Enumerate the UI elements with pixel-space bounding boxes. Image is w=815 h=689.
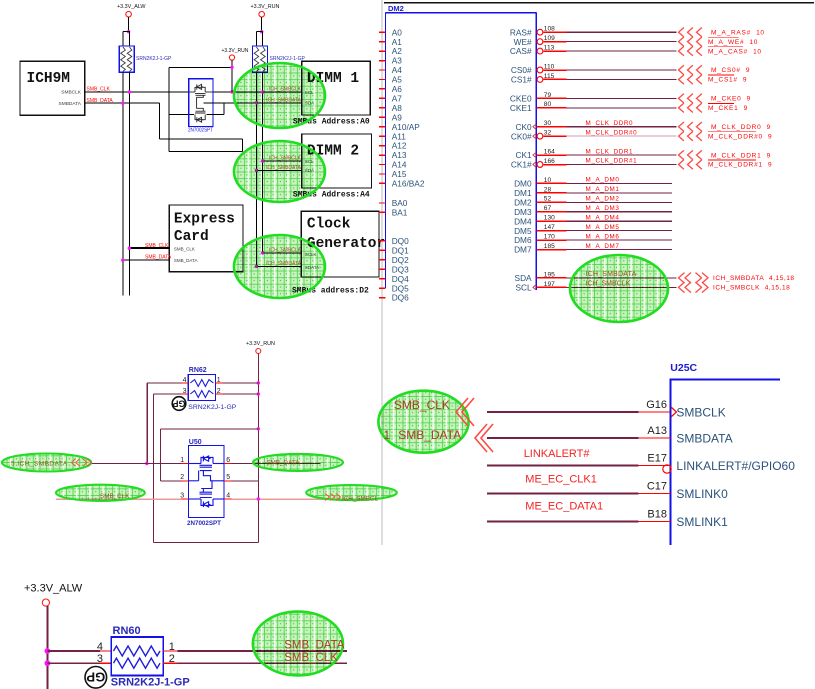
svg-text:DM7: DM7 [514, 245, 532, 255]
svg-text:108: 108 [544, 26, 555, 33]
svg-text:SRN2K2J-1-GP: SRN2K2J-1-GP [111, 677, 190, 689]
pin stub A12 (DM2) [379, 145, 386, 147]
svg-text:SRN2K2J-1-GP: SRN2K2J-1-GP [188, 404, 236, 411]
svg-text:U50: U50 [189, 439, 202, 446]
wire pin DM2 stub [536, 201, 566, 203]
off-page chevrons CK1# [679, 160, 684, 169]
junction SCL rail on SMBCLK [261, 90, 264, 93]
svg-text:28: 28 [544, 186, 552, 193]
junction SCL rail ClockGen [261, 251, 264, 254]
junction SDA rail DIMM2 [255, 169, 258, 172]
wire SCL Q1 to DIMM1 [213, 91, 302, 93]
svg-text:C17: C17 [647, 481, 667, 493]
pin stub A2 (DM2) [379, 50, 386, 52]
wire SDA net [567, 277, 677, 279]
svg-text:SMB_DATA: SMB_DATA [398, 428, 461, 442]
pin stub A14 (DM2) [379, 164, 386, 166]
off-page chevrons CS1# [679, 75, 684, 84]
svg-text:CS1#: CS1# [511, 75, 532, 85]
resistor pack RN62 [188, 375, 215, 401]
svg-text:M_A_DM2: M_A_DM2 [586, 196, 620, 203]
wire pin DM0 stub [536, 182, 566, 184]
pin stub U50 right y480.8 [224, 480, 231, 482]
svg-text:SMB_DATA: SMB_DATA [266, 460, 300, 467]
svg-text:SCL: SCL [515, 282, 532, 292]
wire pin CKE1 stub [536, 107, 566, 109]
off-page chevrons CK0# [679, 131, 684, 140]
svg-text:SRN2K2J-1-GP: SRN2K2J-1-GP [270, 56, 306, 62]
svg-text:SMB_DATA: SMB_DATA [284, 639, 345, 651]
wire loop right vertical [242, 139, 244, 152]
wire loop left vertical [168, 67, 170, 151]
IC DM2 block outline [386, 12, 537, 14]
svg-text:M_CLK_DDR0: M_CLK_DDR0 [586, 120, 634, 127]
pin stub A1 (DM2) [379, 41, 386, 43]
off-page chevrons CAS# [679, 46, 684, 55]
block DIMM 2 [302, 134, 372, 188]
svg-text:M_CLK_DDR#1 9: M_CLK_DDR#1 9 [708, 162, 772, 169]
wire RN pack left leg upper [122, 32, 124, 46]
wire pin DM7 stub [536, 249, 566, 251]
block Clock Generator [301, 211, 379, 277]
wire CS0# net [567, 69, 677, 71]
wire pin CS0# stub [543, 69, 566, 71]
wire pin CKE0 stub [536, 97, 566, 99]
pin stub E17 [638, 465, 670, 467]
highlight ellipse SMB_DATA (middle) [253, 454, 343, 471]
wire pin CK1# stub [543, 164, 566, 166]
wire drain up to SDA [223, 103, 225, 115]
svg-text:ICH_SMBDATA: ICH_SMBDATA [266, 165, 301, 171]
wire rail branch left [160, 428, 258, 430]
resistor pack RN60 [111, 637, 163, 676]
svg-text:SMBDATA: SMBDATA [676, 432, 732, 446]
junction SCL rail DIMM2 [261, 159, 264, 162]
transistor Q1 upper MOSFET symbol [189, 84, 213, 111]
svg-text:ICH_SMBDATA: ICH_SMBDATA [266, 261, 301, 267]
svg-text:CK1#: CK1# [511, 160, 532, 170]
block Express Card [169, 205, 243, 272]
pin stub A5 (DM2) [379, 78, 386, 80]
wire pin CK1 stub [536, 154, 566, 156]
wire RN62.2 to rail [223, 393, 259, 395]
svg-text:GP: GP [86, 670, 105, 685]
svg-text:4: 4 [226, 492, 230, 499]
pin stub C17 [638, 493, 670, 495]
svg-text:M_CS1# 9: M_CS1# 9 [708, 77, 747, 84]
svg-text:M_CLK_DDR1 9: M_CLK_DDR1 9 [711, 152, 771, 159]
wire CK1# net [567, 164, 677, 166]
pin stub A0 (DM2) [379, 31, 386, 33]
pin stub A9 (DM2) [379, 116, 386, 118]
wire +3.3V_ALW rail (bottom) [46, 606, 48, 689]
wire pin CAS# stub [543, 50, 566, 52]
junction SDA rail ClockGen [255, 265, 258, 268]
svg-text:A16/BA2: A16/BA2 [392, 179, 425, 189]
svg-text:2N7002SPT: 2N7002SPT [187, 520, 221, 527]
wire SDA to DIMM2 [256, 169, 301, 171]
wire to U50.2 stub [160, 480, 181, 482]
pin stub A3 (DM2) [379, 60, 386, 62]
wire SCL net [567, 286, 677, 288]
wire SDATA to ClockGen [256, 265, 301, 267]
svg-text:1: 1 [180, 457, 184, 464]
svg-text:LINKALERT#/GPIO60: LINKALERT#/GPIO60 [676, 459, 795, 473]
svg-text:+3.3V_ALW: +3.3V_ALW [117, 4, 146, 10]
wire bottom horizontal [153, 542, 258, 544]
junction on U50 pin1 wire [145, 462, 148, 465]
highlight ellipse DIMM2 SMB nets [234, 141, 325, 202]
highlight ellipse SMB_CLK/SMB_DATA (U25C) [378, 391, 468, 453]
highlight ellipse ICH_SMBDATA/ICH_SMBCLK (DM2) [570, 255, 668, 322]
svg-text:110: 110 [544, 63, 555, 70]
wire pin SCL stub [536, 286, 566, 288]
pin stub DQ6 (DM2) [379, 297, 386, 299]
svg-text:115: 115 [544, 73, 555, 80]
wire to RN60.4 [47, 650, 100, 652]
wire jog to pack legs [123, 31, 130, 33]
transistor block Q1 box [189, 79, 213, 127]
wire to SMLINK1 [487, 521, 638, 523]
svg-text:M_CKE1 9: M_CKE1 9 [708, 105, 748, 112]
wire pin CK0# stub [543, 135, 566, 137]
svg-text:1: 1 [384, 428, 391, 442]
svg-text:DM2: DM2 [388, 4, 404, 13]
svg-text:Card: Card [174, 229, 209, 245]
svg-text:M_A_DM0: M_A_DM0 [586, 177, 620, 184]
wire to LINKALERT#/GPIO60 [487, 465, 638, 467]
wire lower FET drain [206, 114, 223, 116]
svg-text:185: 185 [544, 243, 555, 250]
pin stub A11 (DM2) [379, 135, 386, 137]
wire 3.3V rail down to SMBCLK [231, 60, 233, 92]
wire left pack leg B down rail [128, 72, 130, 295]
wire RN62.4 left [147, 382, 182, 384]
wire down to U50.2 [159, 429, 161, 481]
wire to SMBDATA [487, 437, 638, 439]
svg-text:32: 32 [544, 130, 552, 137]
wire pin DM1 stub [536, 192, 566, 194]
svg-text:E17: E17 [647, 453, 667, 465]
svg-text:M_A_CAS# 10: M_A_CAS# 10 [708, 48, 762, 55]
svg-text:5: 5 [226, 474, 230, 481]
wire DM1 net [567, 192, 673, 194]
pin stub U50 left y480.8 [181, 480, 189, 482]
junction rail/loop top [230, 66, 233, 69]
off-page chevrons SCL [679, 282, 685, 293]
big chevrons SMB_CLK [456, 398, 468, 426]
wire SMB_DATA (bottom) [178, 650, 348, 652]
junction +3.3V_RUN split [260, 30, 263, 33]
wire DM3 net [567, 211, 673, 213]
pin stub RN62.3 [182, 393, 189, 395]
junction +3.3V_ALW split [127, 30, 130, 33]
wire pin DM4 stub [536, 220, 566, 222]
svg-text:+3.3V_RUN: +3.3V_RUN [222, 48, 249, 54]
junction U50.4 wire [257, 497, 260, 500]
pin stub DQ5 (DM2) [379, 287, 386, 289]
svg-text:U25C: U25C [670, 362, 697, 374]
wire to SMBCLK [487, 411, 638, 413]
pin stub A13 (DM2) [379, 154, 386, 156]
wire ICH_SMBDATA to U50.1 [91, 463, 181, 465]
svg-text:197: 197 [544, 281, 555, 288]
svg-text:M_A_DM1: M_A_DM1 [586, 186, 620, 193]
wire SCLK to ClockGen [263, 252, 302, 254]
U50 internal MOSFET symbols [189, 456, 225, 507]
svg-text:ICH_SMBCL: ICH_SMBCL [342, 495, 379, 502]
pin stub RN60.4 [100, 650, 111, 652]
wire down from U50.4 row [257, 499, 259, 543]
highlight ellipse SMB_DATA/SMB_CLK (bottom) [253, 612, 343, 676]
wire pin CS1# stub [543, 78, 566, 80]
svg-text:M_CLK_DDR#0 9: M_CLK_DDR#0 9 [708, 133, 772, 140]
highlight ellipse ClockGen SMB nets [234, 235, 325, 298]
svg-text:M_CKE0 9: M_CKE0 9 [711, 96, 751, 103]
power symbol +3.3V_RUN circle (mid) [229, 55, 234, 60]
wire pin DM5 stub [536, 230, 566, 232]
block DIMM 1 [302, 61, 371, 115]
svg-text:ICH9M: ICH9M [27, 71, 71, 87]
wire RN pack right leg upper [128, 32, 130, 46]
svg-text:SMB_CLK: SMB_CLK [284, 652, 338, 664]
wire CKE1 net [567, 107, 677, 109]
svg-text:SMBDATA: SMBDATA [59, 101, 82, 107]
pin stub RN62.4 [182, 382, 189, 384]
svg-text:M_A_DM4: M_A_DM4 [586, 214, 620, 221]
pin stub RN62.2 [215, 393, 222, 395]
svg-text:ME_EC_CLK1: ME_EC_CLK1 [525, 474, 597, 486]
pin stub U50 right y463.5 [224, 463, 231, 465]
off-page chevrons CKE0 [679, 94, 684, 103]
junction rail branch [257, 427, 260, 430]
wire pin DM6 stub [536, 239, 566, 241]
wire SMB_CLK to U50.3 [56, 498, 181, 500]
wire pin DM3 stub [536, 211, 566, 213]
svg-text:SMB_CLK: SMB_CLK [394, 398, 450, 412]
pin stub A13 [638, 437, 670, 439]
pin stub DQ1 (DM2) [379, 249, 386, 251]
pin stub A8 (DM2) [379, 107, 386, 109]
highlight ellipse SMB_CLK (middle left) [56, 485, 145, 501]
pin stub RN60.3 [100, 662, 111, 664]
power symbol +3.3V_ALW circle [126, 11, 132, 17]
junction RN60.4 [45, 648, 51, 654]
wire pin SDA stub [536, 277, 566, 279]
wire right pack left leg upper [255, 32, 257, 46]
IC U25C outline [670, 379, 780, 381]
svg-text:195: 195 [544, 271, 555, 278]
junction SMB_CLK rail Express [128, 247, 131, 250]
svg-text:4: 4 [97, 641, 103, 653]
resistor pack SRN2K2J-1-GP (right) [253, 46, 268, 72]
svg-text:5 ICH_SMBDATA: 5 ICH_SMBDATA [11, 460, 68, 467]
svg-text:M_A_WE# 10: M_A_WE# 10 [708, 39, 758, 46]
svg-text:ICH_SMBCLK: ICH_SMBCLK [269, 87, 302, 93]
pin stub DQ2 (DM2) [379, 259, 386, 261]
svg-text:GP: GP [172, 398, 185, 408]
wire CS1# net [567, 78, 677, 80]
pin stub A15 (DM2) [379, 173, 386, 175]
svg-text:G16: G16 [646, 399, 667, 411]
svg-text:CAS#: CAS# [510, 46, 532, 56]
wire loop bottom [169, 150, 242, 152]
wire DM0 net [567, 182, 673, 184]
svg-text:170: 170 [544, 234, 555, 241]
wire CK0 net [567, 126, 677, 128]
pin stub A7 (DM2) [379, 97, 386, 99]
off-page chevrons CK0 [679, 122, 684, 131]
svg-text:RN60: RN60 [113, 625, 141, 637]
svg-text:BA1: BA1 [392, 208, 408, 218]
svg-text:B18: B18 [647, 509, 667, 521]
svg-text:SMB_CLK: SMB_CLK [174, 246, 195, 251]
wire RN62.4 down to U50.1 [146, 383, 148, 464]
off-page chevrons SDA [679, 273, 685, 284]
wire SMB_CLK (bottom) [178, 662, 348, 664]
off-page chevrons CS0# [679, 65, 684, 74]
pin stub DQ3 (DM2) [379, 268, 386, 270]
junction RN60.3 [45, 660, 51, 666]
wire SMBDATA ICH9M right [85, 102, 160, 104]
frame top border line [384, 2, 814, 4]
wire RAS# net [567, 31, 677, 33]
wire DM4 net [567, 220, 673, 222]
off-page chevrons RAS# [679, 28, 684, 37]
svg-text:147: 147 [544, 224, 555, 231]
power symbol +3.3V_ALW circle (bottom) [42, 599, 49, 606]
wire pin RAS# stub [543, 31, 566, 33]
off-page chevrons CKE1 [679, 103, 684, 112]
svg-text:Clock: Clock [307, 217, 351, 233]
wire DM7 net [567, 249, 673, 251]
svg-text:DQ6: DQ6 [392, 293, 409, 303]
wire SDA rail down (left leg) [255, 72, 257, 266]
big chevrons SMB_DATA [475, 424, 487, 452]
svg-text:SMB_DATA: SMB_DATA [174, 258, 198, 263]
pin stub RN60.1 [163, 650, 177, 652]
svg-text:6: 6 [226, 457, 230, 464]
pin stub BA1 (DM2) [379, 211, 386, 213]
svg-text:3: 3 [97, 653, 103, 665]
wire pin WE# stub [543, 41, 566, 43]
svg-text:2N7002SPT: 2N7002SPT [188, 128, 213, 134]
off-page chevrons CK1 [679, 150, 684, 159]
pin stub A16/BA2 (DM2) [379, 182, 386, 184]
pin stub DQ4 (DM2) [379, 278, 386, 280]
highlight ellipse DIMM1 SMB nets [234, 63, 325, 128]
junction 3.3V rail on SMBCLK [230, 90, 233, 93]
block ICH9M [20, 61, 85, 115]
svg-text:80: 80 [544, 101, 552, 108]
chevrons ICH_SMBCLK (middle right) [325, 494, 329, 501]
svg-text:SMB_DATA: SMB_DATA [145, 254, 172, 260]
svg-text:67: 67 [544, 205, 552, 212]
svg-text:ICH_SMBDATA: ICH_SMBDATA [266, 97, 301, 103]
svg-text:166: 166 [544, 158, 555, 165]
svg-text:M_CLK_DDR#0: M_CLK_DDR#0 [586, 129, 638, 136]
wire RN62.3 down [152, 394, 154, 543]
svg-text:ICH_SMBDATA 4,15,18: ICH_SMBDATA 4,15,18 [713, 275, 795, 282]
svg-text:M_CLK_DDR1: M_CLK_DDR1 [586, 148, 634, 155]
pin stub A6 (DM2) [379, 88, 386, 90]
pin stub U50 left y499 [181, 498, 189, 500]
svg-text:CKE1: CKE1 [510, 103, 532, 113]
wire loop top [169, 66, 232, 68]
svg-text:SMBCLK: SMBCLK [676, 406, 725, 420]
wire SDA to DIMM1 [203, 102, 301, 104]
RN60 resistor zigzags [114, 646, 161, 656]
svg-text:ICH_SMBDATA: ICH_SMBDATA [586, 271, 637, 278]
pin stub A4 (DM2) [379, 69, 386, 71]
svg-text:M_CS0# 9: M_CS0# 9 [711, 67, 750, 74]
wire right pack right leg upper [262, 32, 264, 46]
wire +3.3V_ALW down [128, 17, 130, 32]
junction RN62 pin2 to rail [257, 392, 260, 395]
highlight ellipse ICH_SMBCLK (middle right) [306, 485, 397, 500]
wire SMBDATA down [159, 103, 161, 139]
wire DM5 net [567, 230, 673, 232]
pin stub RN62.1 [215, 382, 222, 384]
wire SMBCLK ICH9M to Q1 [85, 91, 189, 93]
wire to SMLINK0 [487, 493, 638, 495]
svg-text:+3.3V_RUN: +3.3V_RUN [251, 4, 280, 10]
svg-text:RN62: RN62 [189, 367, 207, 374]
svg-text:SMLINK0: SMLINK0 [676, 487, 728, 501]
svg-text:A13: A13 [647, 425, 667, 437]
svg-text:SMLINK1: SMLINK1 [676, 515, 728, 529]
wire U50.4 to ICH_SMBCLK [231, 498, 377, 500]
wire RN62.1 to rail [223, 382, 259, 384]
svg-text:30: 30 [544, 120, 552, 127]
wire CKE0 net [567, 97, 677, 99]
pin stub BA0 (DM2) [379, 202, 386, 204]
wire WE# net [567, 41, 677, 43]
pin stub U50 right y499 [224, 498, 231, 500]
wire to RN60.3 [47, 662, 100, 664]
svg-text:79: 79 [544, 92, 552, 99]
svg-text:M_A_DM6: M_A_DM6 [586, 233, 620, 240]
svg-text:SRN2K2J-1-GP: SRN2K2J-1-GP [136, 56, 172, 62]
wire U50.5 to rail [231, 480, 258, 482]
svg-text:ME_EC_DATA1: ME_EC_DATA1 [525, 501, 603, 513]
wire CK1 net [567, 154, 677, 156]
svg-text:Express: Express [174, 212, 235, 228]
wire SMB_DATA to Express [123, 259, 170, 261]
svg-text:ICH_SMBCLK: ICH_SMBCLK [269, 156, 302, 162]
transistor block U50 [189, 446, 225, 518]
highlight ellipse ICH_SMBDATA (middle left) [2, 454, 91, 472]
junction pullup on SMBCLK [128, 90, 131, 93]
svg-text:ICH_SMBCLK 4,15,18: ICH_SMBCLK 4,15,18 [713, 285, 790, 292]
svg-text:113: 113 [544, 45, 555, 52]
svg-text:130: 130 [544, 215, 555, 222]
svg-text:M_A_RAS# 10: M_A_RAS# 10 [711, 29, 765, 36]
wire DM6 net [567, 239, 673, 241]
wire +3.3V_RUN rail (middle) [257, 354, 259, 500]
power symbol +3.3V_RUN circle (middle) [256, 349, 261, 354]
svg-text:CK0#: CK0# [511, 131, 532, 141]
resistor pack SRN2K2J-1-GP (left) [119, 46, 134, 72]
svg-text:LINKALERT#: LINKALERT# [524, 448, 591, 460]
pin stub RN60.2 [163, 662, 177, 664]
stamp circle GP (RN60) [85, 667, 107, 689]
svg-text:52: 52 [544, 196, 552, 203]
svg-text:10: 10 [544, 177, 552, 184]
svg-text:2: 2 [180, 474, 184, 481]
pin stub A10/AP (DM2) [379, 126, 386, 128]
wire SMB_CLK to Express [129, 247, 169, 249]
